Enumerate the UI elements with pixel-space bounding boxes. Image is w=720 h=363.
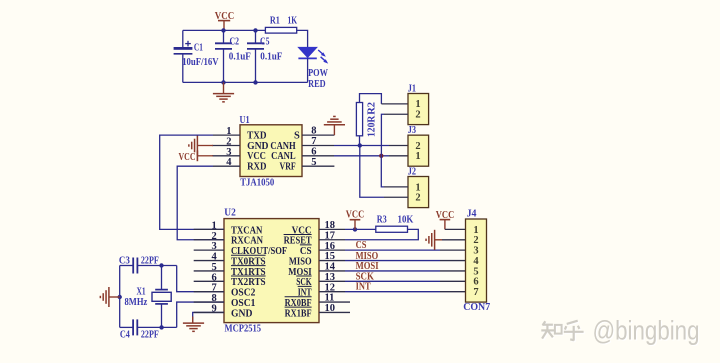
- net label INT: [356, 282, 371, 293]
- svg-text:1: 1: [473, 225, 478, 236]
- net label MISO: [356, 251, 379, 262]
- wire top VCC rail: [183, 29, 266, 31]
- svg-text:7: 7: [473, 287, 478, 298]
- wire J1 pin 2 riser to CANL: [381, 114, 408, 156]
- U2 pin 5 stub: [194, 270, 224, 272]
- svg-text:RX1BF: RX1BF: [285, 308, 312, 319]
- svg-text:S: S: [294, 131, 300, 142]
- wire crystal left leg: [119, 266, 121, 328]
- svg-text:POW: POW: [308, 68, 328, 79]
- svg-text:10K: 10K: [398, 215, 415, 226]
- LED POW (red power LED): [298, 47, 328, 90]
- svg-text:R3: R3: [377, 215, 387, 226]
- svg-text:J3: J3: [408, 125, 416, 136]
- svg-text:R1: R1: [270, 16, 280, 27]
- U1 pin names: [247, 131, 300, 173]
- U2 pin names: [231, 225, 312, 319]
- svg-text:J1: J1: [408, 83, 416, 94]
- wire CANL riser to J2 pin 1: [381, 156, 408, 187]
- node junction CANH / R2: [358, 143, 362, 147]
- node junction bottom rail at C5: [253, 80, 257, 84]
- svg-text:0.1uF: 0.1uF: [229, 52, 251, 63]
- svg-text:C4: C4: [120, 329, 131, 340]
- wire MISO net (U2 pin15 to J4 pin4): [319, 260, 466, 262]
- resistor R1 1K: [265, 16, 297, 34]
- svg-text:C1: C1: [194, 43, 203, 54]
- wire RXD net (U1 pin4 to U2 pin2): [177, 166, 224, 240]
- wire INT net (U2 pin12 to J4 pin7): [319, 291, 466, 293]
- svg-text:@bingbing: @bingbing: [593, 315, 700, 345]
- net label SCK: [356, 272, 375, 283]
- svg-text:VCC: VCC: [179, 152, 196, 163]
- node junction crystal ground: [118, 295, 122, 299]
- svg-text:2: 2: [473, 235, 478, 246]
- ground (below U2 pin 9): [183, 317, 204, 332]
- svg-text:C2: C2: [230, 36, 240, 47]
- wire CS net (U2 pin16 to J4 pin3): [319, 249, 466, 251]
- wire R2 bottom to CANH: [359, 136, 361, 146]
- capacitor C1 (10uF/16V electrolytic): [174, 30, 219, 82]
- crystal X1 8MHz: [125, 266, 172, 328]
- svg-text:TX2RTS: TX2RTS: [231, 277, 266, 288]
- power port VCC at U2 pin 18: [346, 209, 364, 229]
- wire U2 pin18 to R3: [319, 228, 376, 230]
- svg-text:3: 3: [473, 246, 478, 257]
- svg-text:VCC: VCC: [346, 209, 364, 220]
- svg-text:2: 2: [415, 110, 420, 121]
- node junction top rail at C2: [221, 28, 225, 32]
- ground (below C2): [213, 82, 234, 101]
- power port VCC at U1 pin 3: [179, 150, 198, 163]
- capacitor C5 (0.1uF): [247, 30, 282, 82]
- resistor R3 10K (RESET pullup): [376, 215, 414, 233]
- svg-text:RXD: RXD: [247, 162, 267, 173]
- connector J1: [408, 83, 429, 124]
- J4 pin numbers: [473, 225, 479, 298]
- svg-text:J4: J4: [467, 209, 478, 220]
- svg-text:CON7: CON7: [463, 302, 490, 313]
- capacitor C4 22PF: [120, 319, 177, 340]
- wire CANH net (U1 pin7 to J3 pin2): [302, 145, 408, 147]
- net label MOSI: [356, 261, 379, 272]
- power net VCC port (top): [215, 11, 234, 30]
- U1 pin 5 stub (VRF): [302, 165, 334, 167]
- svg-text:4: 4: [473, 256, 479, 267]
- svg-text:CS: CS: [300, 246, 312, 257]
- wire TXD net (U1 pin1 to U2 pin1): [160, 135, 224, 229]
- svg-text:1: 1: [415, 151, 420, 162]
- svg-text:22PF: 22PF: [141, 256, 159, 267]
- node junction crystal bottom: [159, 325, 163, 329]
- ground at U1 pin 8 (flipped up): [324, 116, 345, 135]
- svg-text:TXCAN: TXCAN: [231, 225, 263, 236]
- U1 pin 4 stub (RXD): [213, 165, 240, 167]
- capacitor C2 (0.1uF): [215, 30, 251, 82]
- watermark zhihu logo glyphs: [541, 321, 585, 342]
- U2 pin 10 stub: [319, 311, 350, 313]
- connector J4 CON7: [466, 209, 487, 303]
- wire CANL net (U1 pin6 to J3 pin1): [302, 155, 408, 157]
- wire OSC1 (U2 pin8 to crystal): [177, 302, 224, 327]
- U1 pin 3 wire to VCC port: [197, 155, 240, 157]
- capacitor C3 22PF: [119, 256, 177, 274]
- svg-text:CS: CS: [356, 240, 367, 251]
- U1 pin 2 wire to ground port: [197, 145, 240, 147]
- svg-text:TXD: TXD: [247, 131, 267, 142]
- connector J3: [408, 125, 429, 166]
- wire R3 to U2 pin17 (RESET): [319, 229, 418, 239]
- U2 pin 3 stub: [194, 249, 224, 251]
- svg-text:C5: C5: [260, 37, 270, 48]
- svg-text:MCP2515: MCP2515: [225, 324, 262, 335]
- svg-text:22PF: 22PF: [141, 329, 159, 340]
- wire SCK net (U2 pin13 to J4 pin6): [319, 280, 466, 282]
- U1 pin 8 stub (S): [302, 134, 334, 136]
- ground port at J4 pin 2 (rotated): [426, 230, 435, 250]
- svg-text:OSC1: OSC1: [231, 298, 255, 309]
- svg-text:MISO: MISO: [289, 256, 312, 267]
- IC U1 TJA1050 (CAN transceiver) body: [240, 115, 303, 188]
- svg-text:RED: RED: [308, 79, 326, 90]
- svg-text:J2: J2: [408, 166, 416, 177]
- svg-text:X1: X1: [137, 286, 146, 297]
- svg-text:U2: U2: [224, 208, 236, 219]
- J4 label CON7: [463, 302, 490, 313]
- svg-text:1: 1: [415, 99, 420, 110]
- svg-text:C3: C3: [119, 256, 130, 267]
- node junction top rail at C5: [253, 28, 257, 32]
- wire CANH riser to J2 pin 2: [360, 146, 408, 198]
- U1 pin 1 stub (TXD): [213, 134, 240, 136]
- svg-text:2: 2: [415, 193, 420, 204]
- svg-text:RXCAN: RXCAN: [231, 236, 263, 247]
- svg-text:TJA1050: TJA1050: [240, 177, 274, 188]
- svg-text:VCC: VCC: [247, 151, 266, 162]
- node junction bottom rail at C2: [221, 80, 225, 84]
- svg-text:0.1uF: 0.1uF: [260, 52, 282, 63]
- resistor R2 120R (termination): [356, 102, 377, 137]
- svg-text:R2: R2: [366, 102, 377, 115]
- wire OSC2 (U2 pin7 to crystal): [177, 266, 224, 292]
- wire MOSI net (U2 pin14 to J4 pin5): [319, 270, 466, 272]
- wire R1 to LED: [297, 30, 308, 47]
- U1 pin numbers: [226, 126, 316, 169]
- svg-text:OSC2: OSC2: [231, 288, 255, 299]
- wire bottom rail: [183, 81, 308, 83]
- node junction CANL / J1-J2 riser: [379, 154, 383, 158]
- svg-text:6: 6: [473, 277, 478, 288]
- wire R2 top to J1 pin 1: [360, 94, 409, 104]
- svg-text:CANL: CANL: [271, 151, 296, 162]
- svg-text:1K: 1K: [288, 16, 298, 27]
- wire J4 pin 2 to ground: [435, 239, 466, 241]
- svg-text:INT: INT: [356, 282, 371, 293]
- U2 pin 11 stub: [319, 301, 350, 303]
- U2 pin 6 stub: [194, 280, 224, 282]
- svg-text:GND: GND: [231, 308, 253, 319]
- svg-text:VRF: VRF: [280, 162, 296, 173]
- svg-text:8MHz: 8MHz: [125, 297, 148, 308]
- svg-text:MOSI: MOSI: [356, 261, 379, 272]
- watermark @bingbing: [593, 315, 701, 346]
- U2 pin numbers: [212, 220, 336, 314]
- connector J2: [408, 166, 429, 207]
- wire U2 pin 9 to ground: [193, 312, 224, 322]
- svg-text:10uF/16V: 10uF/16V: [182, 57, 219, 68]
- wire LED to bottom rail: [307, 58, 309, 82]
- node junction VCC at pin18: [353, 227, 357, 231]
- svg-text:120R: 120R: [366, 115, 377, 137]
- net label CS: [356, 240, 367, 251]
- U2 pin 4 stub: [194, 260, 224, 262]
- node junction crystal top: [159, 263, 163, 267]
- svg-text:U1: U1: [240, 115, 250, 126]
- power port VCC at J4 pin 1: [436, 210, 466, 230]
- svg-text:5: 5: [473, 266, 478, 277]
- ground port (crystal, rotated): [100, 287, 119, 307]
- ground port at U1 pin 2 (rotated): [189, 136, 198, 156]
- IC U2 MCP2515 (CAN controller) body: [224, 208, 319, 335]
